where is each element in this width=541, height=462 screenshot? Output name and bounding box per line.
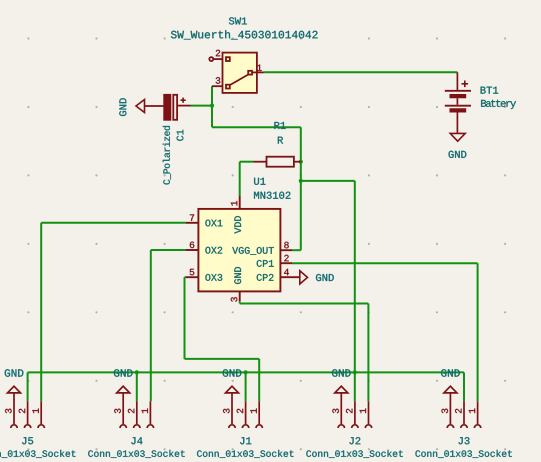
wire VGG down to J2 pin2 bbox=[354, 181, 356, 401]
wire junction to R1 column bbox=[212, 126, 301, 128]
J5 pin 2 number bbox=[19, 409, 25, 413]
switch SW1 bbox=[209, 53, 263, 93]
label J3 reference bbox=[459, 437, 470, 444]
SW1 pin 3 number bbox=[216, 77, 221, 84]
node R1 right junction bbox=[299, 160, 303, 164]
U1 pin name CP2 bbox=[257, 274, 274, 281]
ground (battery) bbox=[450, 133, 465, 141]
J2 pin 2 number bbox=[346, 409, 352, 413]
label SW1 value SW_Wuerth_450301014042 bbox=[171, 30, 318, 39]
U1 pin 7 number bbox=[190, 214, 194, 220]
label C1 reference bbox=[177, 130, 184, 141]
node bus junction J4 bbox=[135, 370, 139, 374]
U1 pin 4 number bbox=[284, 269, 289, 275]
connector J4 bbox=[117, 386, 154, 428]
label BT1 value Battery bbox=[481, 100, 516, 109]
label J4 footprint Conn_01x03_Socket bbox=[88, 450, 184, 458]
wire VGG branch right bbox=[301, 180, 355, 182]
wire OX1 to J5 pin1 bbox=[41, 222, 185, 224]
U1 pin 5 number bbox=[190, 269, 195, 275]
U1 pin name OX2 bbox=[205, 247, 222, 254]
J3 pin 2 number bbox=[455, 409, 461, 413]
label J2 footprint Conn_01x03_Socket bbox=[306, 450, 402, 458]
wire switch pin1 to battery bbox=[264, 71, 458, 73]
U1 pin 1 number bbox=[231, 201, 237, 206]
wire pin8 connect bbox=[292, 249, 301, 251]
wire R1 column down to U1 pin8 bbox=[300, 127, 302, 250]
label GND (battery ground) bbox=[449, 151, 467, 158]
J3 pin 1 number bbox=[469, 409, 475, 414]
label GND (J4 ground) bbox=[114, 369, 133, 376]
U1 pin 8 number bbox=[284, 242, 289, 249]
wire OX2 to J4 pin1 bbox=[151, 249, 186, 251]
label J5 footprint Conn_01x03_Socket bbox=[0, 450, 75, 458]
battery BT1 bbox=[445, 72, 471, 133]
J1 pin 1 number bbox=[250, 409, 256, 414]
J1 pin 3 number bbox=[223, 409, 230, 414]
wire CP1 to J3 pin1 bbox=[292, 262, 478, 264]
label GND (capacitor ground) bbox=[119, 98, 126, 116]
label J1 reference bbox=[240, 437, 251, 444]
connector J3 bbox=[444, 386, 481, 428]
wire capacitor to junction bbox=[191, 105, 213, 107]
label J3 footprint Conn_01x03_Socket bbox=[415, 450, 511, 458]
J4 pin 3 number bbox=[114, 409, 121, 414]
label U1 value MN3102 bbox=[254, 192, 290, 199]
J3 pin 3 number bbox=[441, 409, 448, 414]
connector J1 bbox=[226, 386, 263, 428]
label J5 reference bbox=[22, 437, 33, 444]
wire J4 pin2 drop bbox=[136, 372, 138, 401]
label J2 reference bbox=[349, 437, 360, 444]
label GND (J3 ground) bbox=[441, 369, 460, 376]
wire VGG bus bbox=[28, 371, 464, 373]
label GND (U1 pin 4 ground) bbox=[316, 274, 334, 281]
node junction under switch bbox=[210, 104, 214, 108]
J4 pin 1 number bbox=[142, 409, 148, 414]
wire R1 left to U1 pin1 bbox=[240, 161, 254, 163]
U1 pin name GND bbox=[234, 267, 241, 284]
label GND (J5 ground) bbox=[5, 369, 24, 376]
label J4 reference bbox=[131, 437, 142, 444]
J1 pin 2 number bbox=[237, 409, 243, 413]
resistor R1 bbox=[254, 157, 301, 167]
ground (capacitor) bbox=[136, 100, 145, 113]
J2 pin 1 number bbox=[360, 409, 366, 414]
label SW1 reference bbox=[229, 17, 247, 24]
U1 pin name CP1 bbox=[257, 260, 274, 267]
wire U1 pin3 to J2 pin1 bbox=[239, 301, 241, 303]
node VGG branch junction bbox=[299, 179, 303, 183]
SW1 pin 2 number bbox=[216, 50, 220, 56]
U1 pin 2 number bbox=[284, 255, 288, 261]
label J1 footprint Conn_01x03_Socket bbox=[197, 450, 293, 458]
U1 pin name VDD bbox=[234, 216, 241, 233]
wire OX3 to J1 pin1 bbox=[185, 276, 186, 278]
SW1 pin 1 number bbox=[257, 65, 262, 71]
label R1 reference bbox=[274, 122, 285, 129]
wire switch pin3 down to junction bbox=[211, 86, 213, 127]
U1 pin name OX1 bbox=[205, 220, 222, 227]
node bus junction J2 bbox=[353, 370, 357, 374]
ground (U1 pin4) bbox=[300, 271, 308, 284]
label GND (J1 ground) bbox=[223, 369, 242, 376]
connector J5 bbox=[8, 386, 45, 428]
J5 pin 3 number bbox=[5, 409, 12, 414]
U1 pin 6 number bbox=[190, 242, 194, 249]
J5 pin 1 number bbox=[32, 409, 38, 414]
wire J1 pin2 drop bbox=[245, 372, 247, 401]
op-amp U1 MN3102 bbox=[186, 196, 300, 301]
connector J2 bbox=[335, 386, 372, 428]
J2 pin 3 number bbox=[332, 409, 339, 414]
label GND (J2 ground) bbox=[332, 369, 351, 376]
J4 pin 2 number bbox=[128, 409, 134, 413]
label BT1 reference bbox=[481, 87, 499, 94]
node bus junction J1 bbox=[244, 370, 248, 374]
capacitor C1 bbox=[164, 95, 190, 120]
U1 pin 3 number bbox=[231, 297, 238, 302]
U1 pin name VGG_OUT bbox=[232, 247, 274, 255]
label C1 value C_Polarized bbox=[163, 126, 171, 184]
label R1 value R bbox=[278, 137, 283, 144]
label U1 reference bbox=[254, 178, 265, 185]
U1 pin name OX3 bbox=[205, 274, 222, 281]
